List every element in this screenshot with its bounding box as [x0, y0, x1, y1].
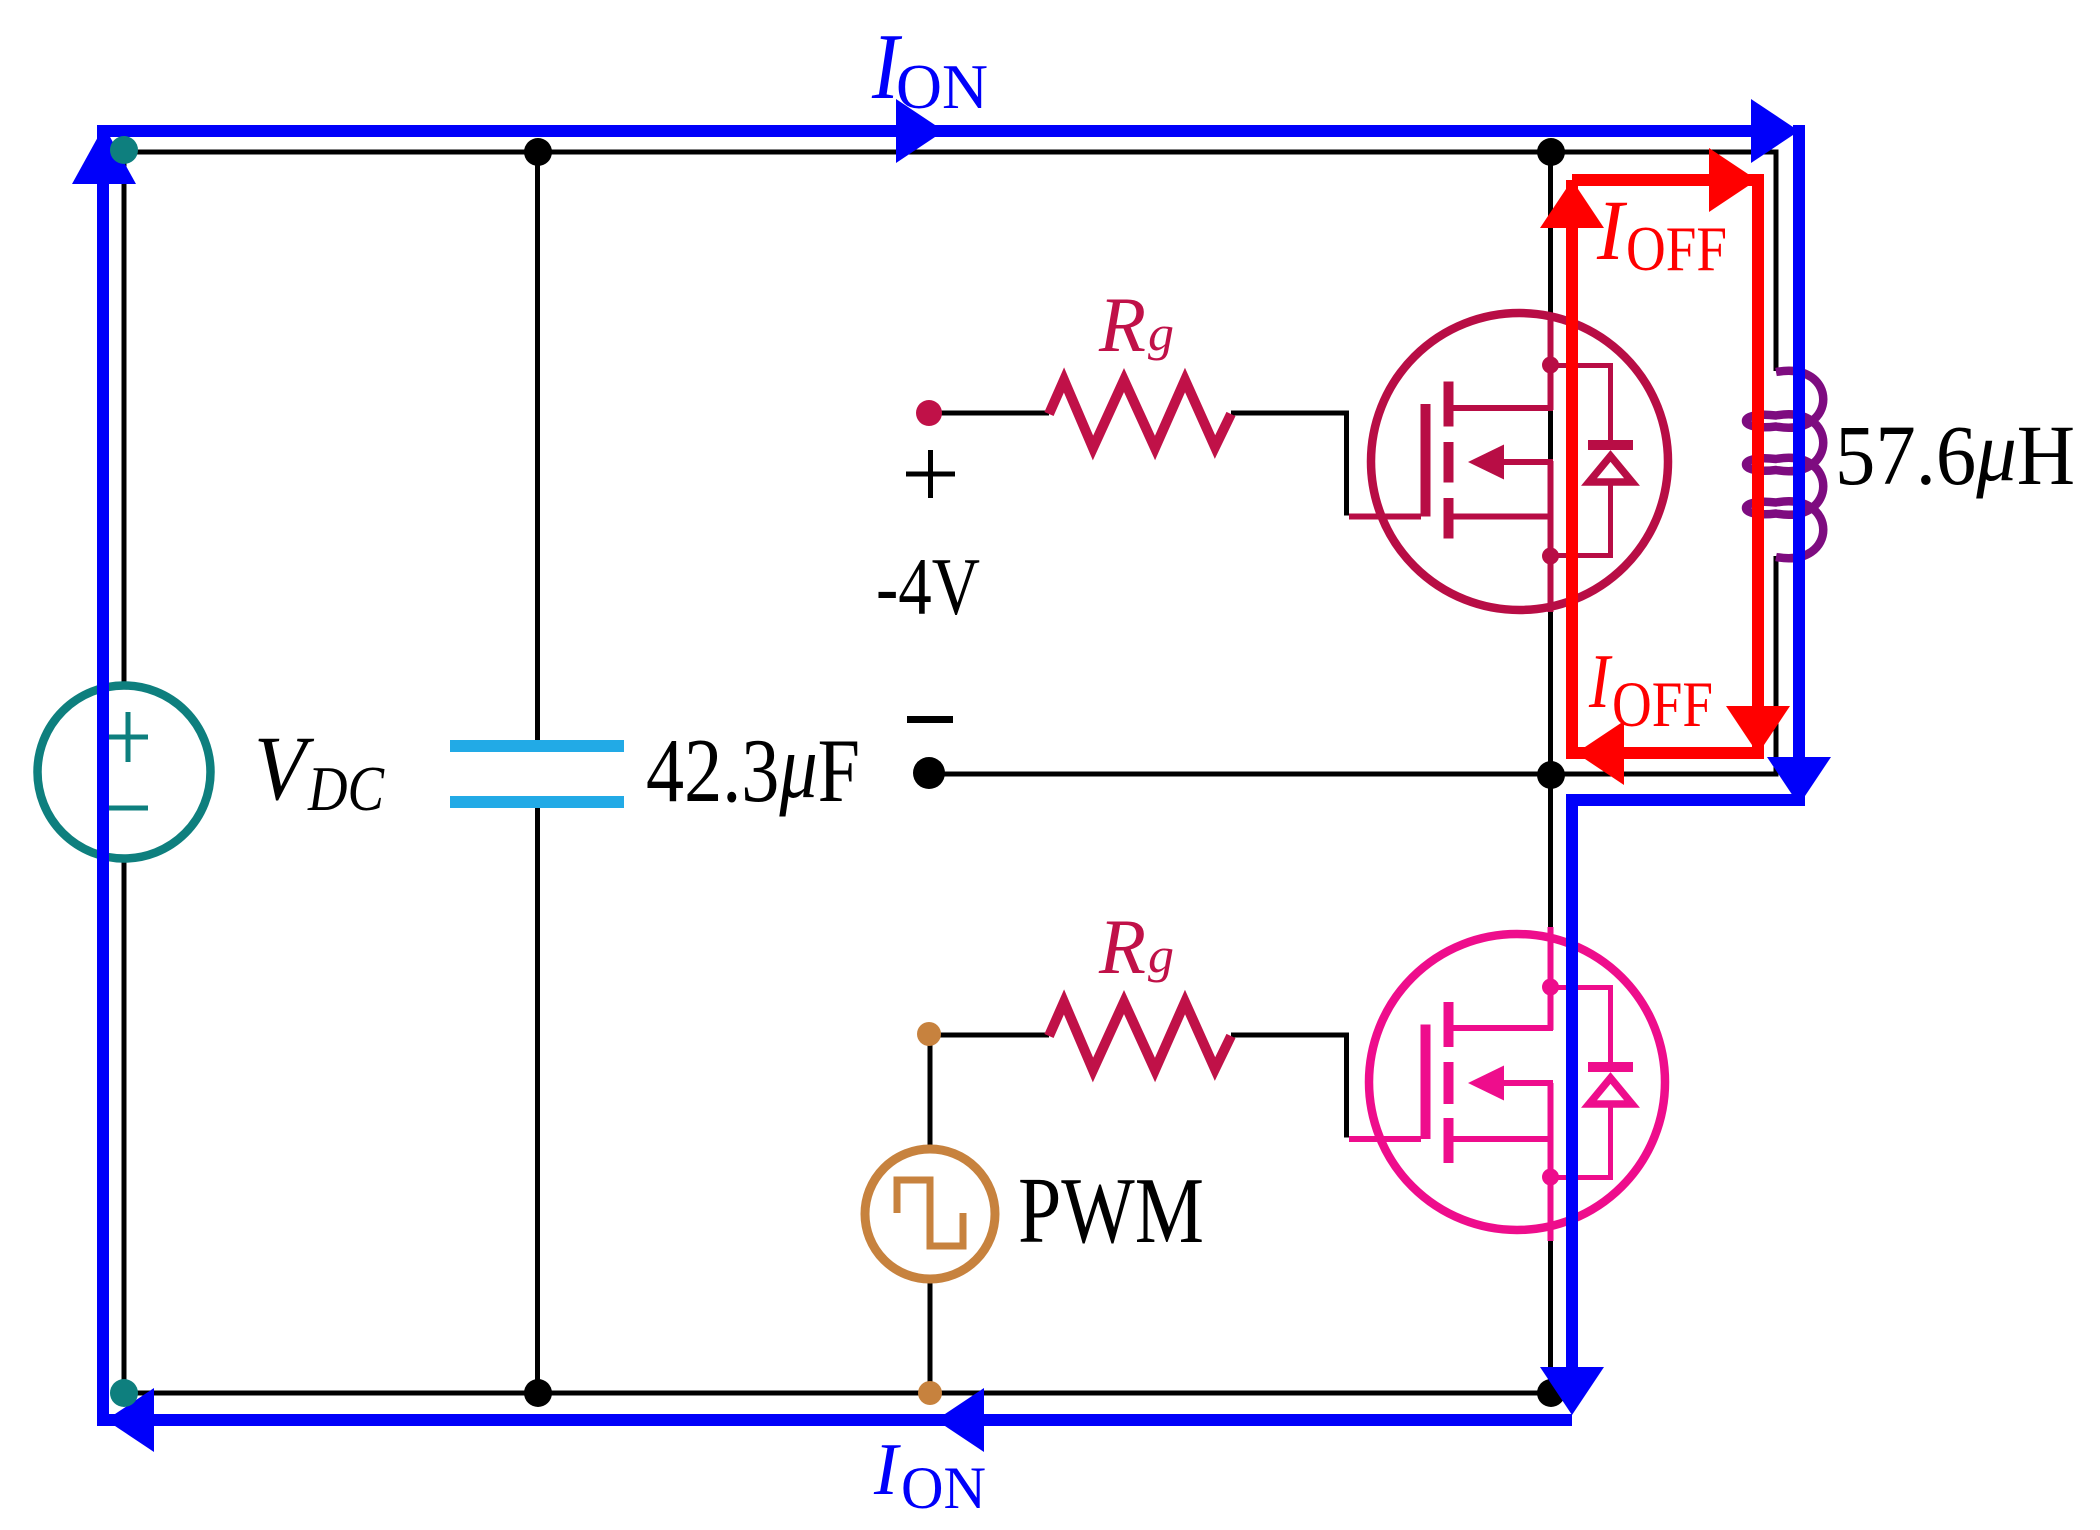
- svg-text:-4V: -4V: [876, 541, 980, 632]
- svg-text:g: g: [1148, 927, 1174, 983]
- svg-text:57.6μH: 57.6μH: [1835, 403, 2075, 503]
- svg-text:I: I: [873, 1429, 901, 1511]
- svg-text:I: I: [1596, 182, 1627, 278]
- svg-text:PWM: PWM: [1018, 1159, 1204, 1263]
- svg-text:V: V: [254, 717, 315, 819]
- svg-text:OFF: OFF: [1626, 214, 1727, 284]
- svg-text:ON: ON: [896, 52, 988, 122]
- svg-text:ON: ON: [901, 1455, 986, 1521]
- svg-text:OFF: OFF: [1612, 669, 1713, 741]
- svg-text:DC: DC: [307, 753, 385, 824]
- svg-text:g: g: [1148, 305, 1174, 361]
- svg-text:I: I: [1588, 638, 1613, 724]
- svg-text:R: R: [1098, 281, 1146, 368]
- svg-text:42.3μF: 42.3μF: [646, 716, 860, 821]
- svg-text:R: R: [1098, 903, 1146, 990]
